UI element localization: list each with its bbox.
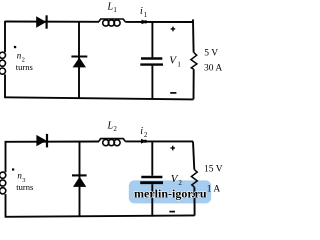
label - (V2 polarity) [169,211,175,213]
winding n3 [0,172,6,194]
wire: freewheel branch circuit 2 [79,141,81,216]
svg-text:2: 2 [113,125,117,133]
svg-text:1: 1 [177,60,181,68]
current arrow i1 [142,20,148,25]
label i2 [140,126,148,139]
svg-text:15 V: 15 V [204,164,223,174]
resistor R1: load output 1 (5 V, 30 A) [191,52,197,69]
label i1 [140,6,148,19]
svg-text:turns: turns [16,62,33,72]
svg-text:30 A: 30 A [204,63,222,73]
svg-text:i: i [140,126,143,137]
wire: left edge circuit 2 lower (winding n3 to bottom rail) [5,194,7,218]
diode D5 (freewheeling diode, output 2) [72,175,87,187]
wire: capacitor branch lower circuit 1 [151,66,153,99]
capacitor C2 (output filter, V2) [140,177,163,183]
svg-text:1: 1 [113,6,117,14]
wire: right edge circuit 2 upper (top rail to load R2) [193,141,194,169]
winding n2 [0,52,6,74]
wire: right edge circuit 1 lower (load R1 to bottom rail) [193,69,195,99]
wire: bottom rail circuit 2 [6,215,195,216]
wire: right edge circuit 1 upper (top rail to load R1) [192,19,195,52]
label L2 [107,120,118,133]
svg-text:turns: turns [16,182,33,192]
svg-text:V: V [169,55,177,67]
inductor L1 [99,19,126,26]
label + (V2 polarity) [171,146,176,151]
capacitor C1 (output filter, V1) [140,59,163,65]
label V2 [171,173,183,187]
svg-text:2: 2 [144,131,148,139]
wire: left edge circuit 2 upper (top rail to winding n3) [5,141,7,172]
inductor L2 [99,139,126,146]
label + (V1 polarity) [171,27,176,32]
wire: right edge circuit 2 lower (load R2 to bottom rail) [193,187,195,216]
svg-text:1: 1 [144,11,148,19]
label n3 turns [16,171,33,193]
diode D4 (series rectifier diode, output 2) [36,134,47,148]
wire: top rail circuit 1 (left corner to inductor L1) [5,21,99,23]
svg-text:merlin-igor.ru: merlin-igor.ru [134,186,207,200]
label - (V1 polarity) [170,92,176,94]
watermark merlin-igor.ru [129,180,211,203]
diode D2 (series rectifier diode, output 1) [36,15,46,28]
resistor R2: load output 2 (15 V, 1 A) [191,170,197,188]
label V1 [169,55,181,69]
wire: left edge circuit 1 upper (top rail to winding n2) [4,21,6,52]
wire: left edge circuit 1 lower (winding n2 to bottom rail) [4,75,6,99]
wire: capacitor branch lower circuit 2 [151,184,153,216]
polarity dot of winding n2 [14,46,16,48]
wire: top rail circuit 2 (left corner to inductor L2) [6,141,100,143]
wire: capacitor branch upper circuit 1 [151,22,153,58]
wire: capacitor branch upper circuit 2 [151,141,153,175]
wire: top rail circuit 1 (inductor L1 to right corner) [125,21,193,23]
current arrow i2 [141,139,147,144]
wire: bottom rail circuit 1 [5,97,194,99]
diode D3 (freewheeling diode, output 1) [71,57,87,68]
label L1 [107,1,118,14]
label n2 turns [16,50,33,72]
svg-text:5 V: 5 V [204,48,218,58]
svg-text:i: i [140,6,143,17]
polarity dot of winding n3 [12,168,14,170]
wire: freewheel branch circuit 1 [78,22,80,99]
wire: top rail circuit 2 (inductor L2 to right corner) [125,140,193,142]
